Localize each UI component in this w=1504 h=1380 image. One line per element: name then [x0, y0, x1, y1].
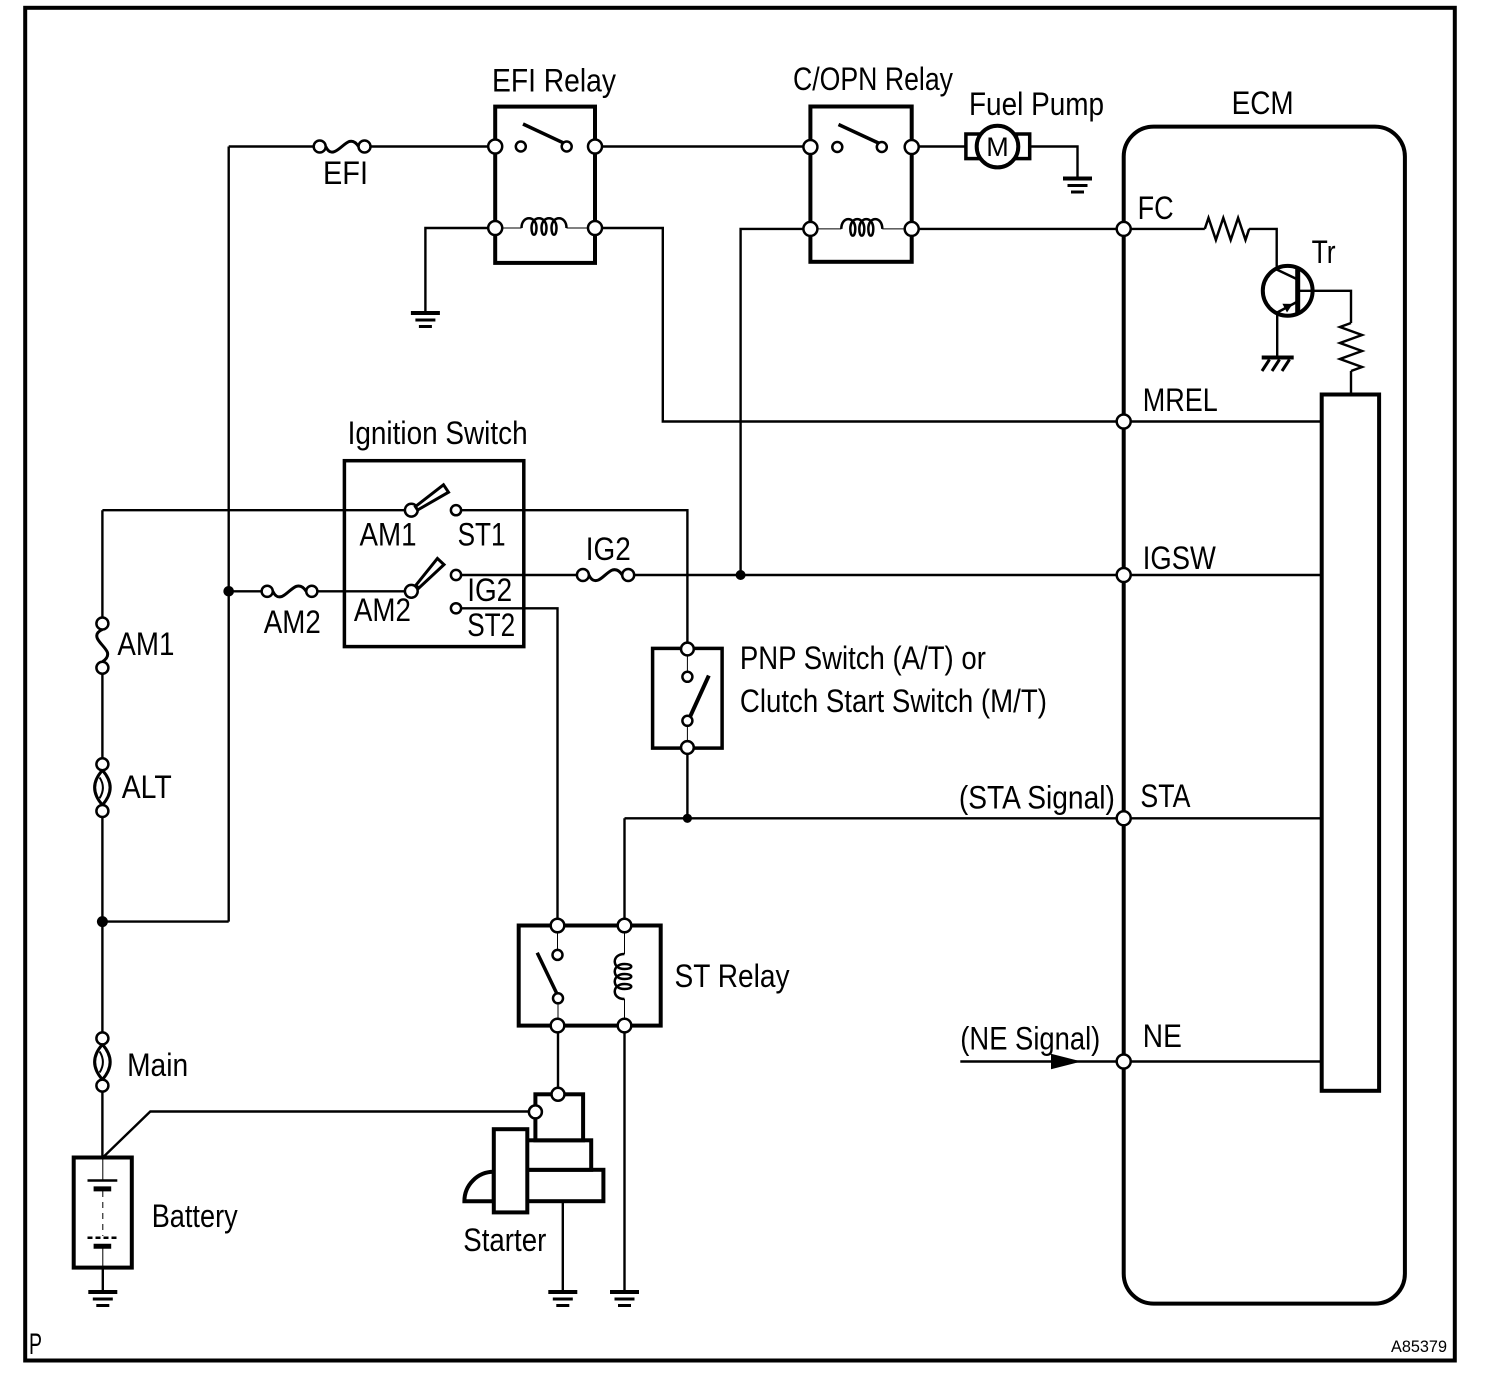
fuse IG2 — [577, 569, 634, 581]
svg-text:AM2: AM2 — [264, 604, 321, 640]
pin MREL — [1117, 415, 1131, 429]
svg-text:STA: STA — [1140, 778, 1191, 814]
starter assembly — [464, 1088, 603, 1213]
svg-text:ALT: ALT — [122, 769, 172, 805]
ECM box — [1124, 127, 1405, 1304]
wire EFI fuse to EFI relay — [365, 145, 496, 147]
node STA junction — [683, 814, 692, 823]
node left rail junction — [97, 916, 108, 927]
resistor FC — [1205, 218, 1249, 240]
wire ST relay to starter solenoid — [557, 1026, 559, 1089]
wire PNP switch to STA node — [686, 748, 688, 818]
ground below EFI relay coil — [411, 313, 440, 327]
svg-text:A85379: A85379 — [1391, 1337, 1447, 1356]
contact AM2 — [405, 585, 418, 598]
wire battery to starter solenoid — [103, 1112, 536, 1158]
motor fuel pump — [966, 126, 1030, 168]
node IG2/IGSW junction — [736, 570, 746, 580]
wire R2 to connector bar — [1350, 371, 1352, 395]
wire resistor to transistor collector — [1249, 229, 1277, 270]
wire fuel pump to ground — [1030, 147, 1078, 178]
transistor Tr — [1263, 266, 1313, 316]
wire EFI relay coil to ground — [425, 228, 495, 312]
wire AM1 row — [102, 509, 411, 511]
wire IGSW internal — [1124, 574, 1322, 576]
svg-text:AM2: AM2 — [354, 592, 411, 628]
chassis ground at transistor emitter — [1262, 358, 1294, 372]
wire AM2 fuse to ignition switch — [312, 590, 412, 592]
key wedge AM1 — [415, 485, 448, 510]
svg-text:Tr: Tr — [1312, 234, 1336, 270]
svg-text:FC: FC — [1138, 190, 1174, 226]
svg-text:IG2: IG2 — [586, 531, 631, 567]
ignition switch box — [344, 461, 523, 647]
svg-text:C/OPN Relay: C/OPN Relay — [793, 61, 953, 97]
wire AM2 node to fuse — [229, 590, 268, 592]
svg-text:M: M — [986, 132, 1009, 162]
svg-text:AM1: AM1 — [360, 517, 417, 553]
wire C/OPN relay coil to IG2 node — [741, 229, 811, 575]
wire transistor emitter to ground — [1276, 313, 1278, 357]
wire FC internal to resistor — [1124, 228, 1205, 230]
svg-text:IG2: IG2 — [467, 572, 512, 608]
switch PNP / clutch start — [653, 643, 723, 754]
svg-text:Fuel Pump: Fuel Pump — [969, 86, 1104, 122]
svg-text:ST1: ST1 — [458, 517, 506, 553]
wire EFI relay to C/OPN relay — [595, 145, 810, 147]
relay ST Relay — [519, 919, 661, 1033]
svg-text:ST Relay: ST Relay — [675, 958, 790, 994]
svg-text:Starter: Starter — [463, 1222, 546, 1258]
resistor R2 at transistor base — [1340, 323, 1362, 371]
svg-text:PNP Switch (A/T) or: PNP Switch (A/T) or — [740, 640, 986, 676]
wire MREL internal — [1124, 420, 1322, 422]
wire second rail from top feed — [227, 147, 229, 922]
svg-text:Clutch Start Switch (M/T): Clutch Start Switch (M/T) — [740, 683, 1047, 719]
svg-text:(STA Signal): (STA Signal) — [959, 780, 1115, 816]
pin NE — [1117, 1055, 1131, 1069]
wire ST1 to PNP switch — [456, 510, 687, 648]
svg-text:AM1: AM1 — [117, 626, 174, 662]
svg-text:ST2: ST2 — [467, 607, 515, 643]
wire NE signal — [960, 1060, 1117, 1062]
contact ST2 — [451, 603, 461, 613]
svg-text:NE: NE — [1143, 1018, 1182, 1054]
ground below fuel pump — [1063, 179, 1092, 193]
battery — [74, 1158, 132, 1268]
ground below starter — [548, 1292, 577, 1306]
wire left rail Main to battery — [101, 1092, 103, 1158]
fuse EFI — [314, 141, 371, 153]
fuse AM2 — [262, 586, 318, 597]
ground below battery — [88, 1292, 117, 1306]
wire IG2 contact to IG2 fuse — [456, 574, 583, 576]
wire ST2 to ST relay — [456, 608, 558, 925]
fuse AM1 — [96, 618, 108, 674]
wire EFI relay coil to MREL — [595, 228, 1124, 422]
svg-text:Ignition Switch: Ignition Switch — [348, 415, 528, 451]
wire left rail between AM1 fuse and ALT — [101, 674, 103, 759]
pin IGSW — [1117, 568, 1131, 582]
fusible link ALT — [95, 758, 111, 817]
wire STA node to ST relay coil — [623, 818, 625, 925]
wire C/OPN relay to fuel pump — [912, 145, 966, 147]
wire left rail between ALT and Main — [101, 817, 103, 1033]
key wedge AM2 — [416, 558, 444, 588]
ECM connector bar — [1322, 395, 1379, 1091]
pin STA — [1117, 811, 1131, 825]
wire STA row — [625, 817, 1124, 819]
svg-text:ECM: ECM — [1232, 85, 1294, 121]
wire jumper to left rail — [102, 920, 228, 922]
fusible link Main — [95, 1032, 111, 1091]
contact IG2 — [451, 570, 461, 580]
wire transistor base to resistor R2 — [1298, 291, 1351, 323]
contact ST1 — [451, 505, 461, 515]
svg-text:EFI Relay: EFI Relay — [492, 63, 616, 99]
wire C/OPN relay coil to FC — [912, 228, 1124, 230]
svg-text:Main: Main — [127, 1047, 188, 1083]
wire starter motor to ground — [562, 1201, 564, 1290]
wire left rail upper — [101, 510, 103, 617]
svg-text:Battery: Battery — [152, 1198, 238, 1234]
wire NE internal — [1124, 1060, 1322, 1062]
svg-text:EFI: EFI — [323, 155, 368, 191]
node AM2 junction — [223, 586, 234, 597]
relay C/OPN Relay — [803, 107, 918, 262]
svg-text:MREL: MREL — [1143, 382, 1218, 418]
svg-text:P: P — [29, 1328, 42, 1361]
wire ST relay coil to ground — [623, 1026, 625, 1291]
svg-text:(NE Signal): (NE Signal) — [960, 1021, 1100, 1057]
relay EFI Relay — [488, 107, 602, 263]
arrowhead NE signal — [1051, 1054, 1081, 1069]
contact AM1 — [405, 504, 418, 517]
ground below ST relay coil — [610, 1292, 639, 1306]
wire IG2 fuse to IGSW — [628, 574, 1123, 576]
wire battery to ground — [102, 1268, 104, 1291]
wire STA internal — [1124, 817, 1322, 819]
wire battery+ top feed to EFI fuse — [229, 145, 320, 147]
svg-text:IGSW: IGSW — [1143, 540, 1217, 576]
pin FC — [1117, 222, 1131, 236]
